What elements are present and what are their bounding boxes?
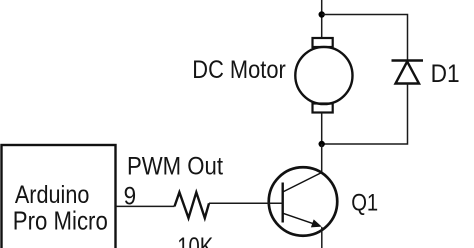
wire motor to node B [321,113,323,145]
wire diode anode to node B [322,84,408,145]
svg-text:DC Motor: DC Motor [192,56,285,84]
wire box to resistor [116,205,175,207]
wire emitter down [321,227,323,248]
Arduino Pro Micro module [2,145,116,248]
emitter arrowhead [311,219,322,227]
svg-text:D1: D1 [431,60,460,88]
motor M1 [295,38,352,113]
diode D1 [392,61,424,84]
node A [319,11,325,17]
node B [319,141,325,147]
svg-text:10K: 10K [177,233,213,248]
wire supply to node A [321,0,323,38]
wire resistor to base [209,202,283,204]
svg-text:Pro Micro: Pro Micro [13,206,108,236]
svg-text:Q1: Q1 [351,190,378,217]
svg-text:PWM Out: PWM Out [127,153,223,181]
resistor R1 [175,192,210,218]
wire node A to diode cathode [322,15,408,61]
transistor Q1 [269,167,338,236]
wire node B to collector [321,144,323,173]
